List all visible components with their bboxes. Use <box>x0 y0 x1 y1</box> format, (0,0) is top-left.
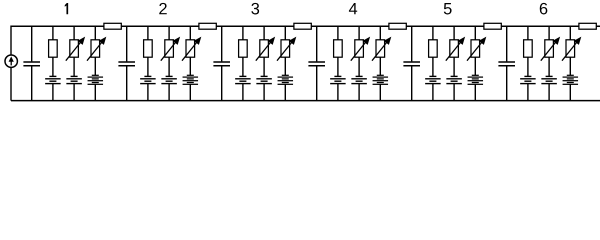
node label 5 <box>444 3 452 14</box>
battery E4a <box>330 76 346 100</box>
battery E3a <box>235 76 251 100</box>
battery E3b <box>256 76 272 100</box>
resistor R4 <box>334 26 343 76</box>
variable resistor VR2b <box>182 26 201 75</box>
battery E6a <box>520 76 536 100</box>
current source I1 <box>5 55 17 67</box>
capacitor C3 <box>213 26 230 100</box>
axial resistor Ra6 <box>579 23 596 29</box>
battery E2a <box>140 76 156 100</box>
capacitor C4 <box>308 26 325 100</box>
capacitor C1 <box>23 26 40 100</box>
axial resistor Ra3 <box>294 23 311 29</box>
wire top rail <box>11 25 600 27</box>
battery E6c <box>563 75 579 100</box>
variable resistor VR5b <box>467 26 486 75</box>
node label 3 <box>251 3 259 15</box>
variable resistor VR3b <box>277 26 296 75</box>
node label 1 <box>65 3 68 14</box>
variable resistor VR6b <box>562 26 581 75</box>
axial resistor Ra2 <box>199 23 216 29</box>
variable resistor VR1a <box>66 26 85 76</box>
resistor R5 <box>429 26 438 76</box>
capacitor C2 <box>118 26 135 100</box>
axial resistor Ra5 <box>484 23 501 29</box>
variable resistor VR4b <box>372 26 391 75</box>
resistor R2 <box>144 26 153 76</box>
axial resistor Ra1 <box>104 23 121 29</box>
wire left edge <box>10 26 12 101</box>
battery E3c <box>278 75 294 100</box>
battery E2c <box>183 75 199 100</box>
resistor R1 <box>49 26 58 76</box>
node label 6 <box>540 3 548 15</box>
axial resistor Ra4 <box>389 23 406 29</box>
wire bottom rail <box>11 100 600 102</box>
variable resistor VR2a <box>161 26 180 76</box>
node label 4 <box>349 3 357 14</box>
battery E4b <box>351 76 367 100</box>
battery E6b <box>541 76 557 100</box>
variable resistor VR1b <box>87 26 106 75</box>
battery E1b <box>66 76 82 100</box>
resistor R6 <box>524 26 533 76</box>
capacitor C6 <box>498 26 515 100</box>
battery E1a <box>45 76 61 100</box>
variable resistor VR3a <box>256 26 274 76</box>
variable resistor VR6a <box>541 26 560 76</box>
battery E4c <box>373 75 389 100</box>
battery E5b <box>446 76 462 100</box>
battery E5c <box>468 75 484 100</box>
variable resistor VR5a <box>446 26 465 76</box>
battery E5a <box>425 76 441 100</box>
node label 2 <box>159 3 166 14</box>
variable resistor VR4a <box>351 26 370 76</box>
resistor R3 <box>239 26 248 76</box>
capacitor C5 <box>403 26 420 100</box>
battery E2b <box>161 76 177 100</box>
battery E1c <box>88 75 104 100</box>
